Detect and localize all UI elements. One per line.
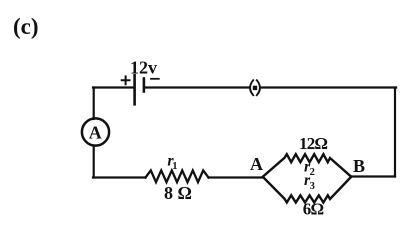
wire: left vertical top (corner down to ammeter) bbox=[93, 88, 95, 120]
wire: left vertical bottom (ammeter down to bottom-left corner) bbox=[93, 146, 95, 178]
svg-text:12v: 12v bbox=[130, 58, 157, 78]
svg-text:2: 2 bbox=[310, 167, 315, 178]
wire: resistor r1 to node A bbox=[209, 176, 264, 178]
wire: bottom-left horizontal (corner to resistor r1) bbox=[93, 176, 146, 178]
wire: node B to bottom-right corner bbox=[351, 175, 395, 177]
wire: battery - plate to key bbox=[145, 86, 249, 88]
key K1 right paren bbox=[257, 80, 260, 95]
svg-text:1: 1 bbox=[172, 161, 177, 172]
svg-text:B: B bbox=[353, 156, 365, 176]
resistor r3 bottom branch zigzag (node A to node B) bbox=[263, 177, 351, 203]
svg-text:3: 3 bbox=[310, 181, 315, 192]
svg-text:A: A bbox=[89, 123, 102, 143]
battery + sign bbox=[122, 76, 130, 84]
svg-text:8 Ω: 8 Ω bbox=[164, 183, 192, 203]
ammeter A1 circle bbox=[82, 118, 109, 145]
wire: key to top-right corner bbox=[262, 86, 397, 88]
resistor r2 top branch zigzag (node A to node B) bbox=[263, 154, 351, 176]
svg-text:A: A bbox=[250, 154, 263, 174]
battery negative plate (short) bbox=[143, 79, 146, 92]
wire: top-left horizontal (corner to battery + plate) bbox=[93, 86, 134, 88]
battery - sign bbox=[151, 78, 159, 80]
resistor r1 zigzag bbox=[146, 170, 209, 182]
wire: right vertical bbox=[394, 88, 396, 177]
svg-text:6Ω: 6Ω bbox=[303, 200, 324, 219]
battery positive plate (long) bbox=[133, 75, 136, 104]
key K1 contact dot bbox=[253, 86, 257, 90]
svg-text:12Ω: 12Ω bbox=[299, 134, 327, 153]
key K1 left paren bbox=[250, 80, 253, 95]
svg-text:(c): (c) bbox=[13, 14, 39, 39]
